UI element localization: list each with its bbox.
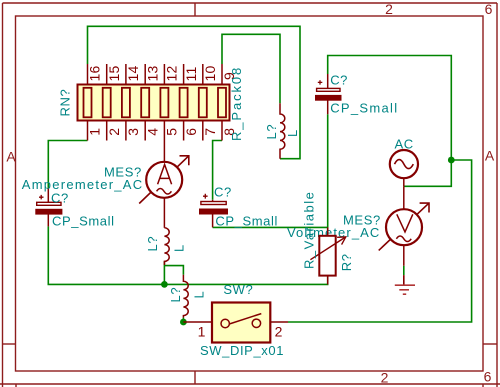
junction D1	[448, 157, 455, 164]
svg-text:C?: C?	[214, 185, 232, 200]
voltmeter tilde	[396, 236, 411, 242]
frame column tick top	[194, 3, 196, 16]
svg-text:AC: AC	[395, 136, 414, 151]
capacitor C2 top plate	[201, 202, 226, 205]
svg-text:CP_Small: CP_Small	[330, 101, 398, 116]
svg-text:R?: R?	[339, 253, 354, 271]
svg-text:2: 2	[106, 128, 122, 136]
svg-text:2: 2	[381, 370, 389, 386]
svg-text:2: 2	[385, 1, 393, 17]
wire C2 bottom to R2 top	[213, 227, 328, 234]
AC source body	[390, 150, 418, 178]
voltmeter bottom pin	[403, 245, 405, 266]
capacitor C3 top lead	[327, 74, 329, 88]
wire junction D1 right down to switch pin2	[288, 160, 472, 322]
svg-text:A: A	[6, 149, 16, 165]
svg-text:3: 3	[125, 128, 141, 136]
svg-text:5: 5	[164, 128, 180, 136]
svg-text:1: 1	[198, 324, 206, 340]
svg-text:L?: L?	[168, 287, 183, 303]
frame tick bottom-left stub	[15, 384, 17, 387]
capacitor C1 top lead	[47, 189, 49, 203]
ammeter top pin	[163, 141, 165, 162]
svg-text:CP_Small: CP_Small	[52, 213, 115, 228]
svg-text:L: L	[285, 129, 300, 137]
resistor elements inside pack	[84, 88, 227, 118]
AC source sine	[395, 160, 414, 169]
voltmeter top pin	[403, 186, 405, 209]
inductor L2	[183, 275, 188, 318]
frame tick bottom-right stub	[482, 384, 484, 387]
pin numbers 1-8 bottom	[87, 128, 238, 136]
wire C3 top to junction D1	[328, 56, 452, 161]
capacitor C2 bottom lead	[212, 214, 214, 227]
ammeter MES? needle arrow	[139, 156, 189, 204]
switch pin 2	[270, 321, 288, 323]
svg-text:L?: L?	[264, 124, 279, 140]
svg-text:Amperemeter_AC: Amperemeter_AC	[22, 177, 144, 192]
svg-text:2: 2	[275, 324, 283, 340]
resistor pack RN? R_Pack08 body	[78, 85, 230, 121]
capacitor C3 top plate	[317, 88, 340, 91]
svg-text:A: A	[485, 148, 495, 164]
capacitor C1 bottom lead	[47, 214, 49, 226]
svg-text:12: 12	[164, 66, 180, 82]
svg-text:4: 4	[144, 128, 160, 136]
switch contacts	[221, 314, 261, 328]
capacitor C1 top plate	[37, 202, 61, 205]
capacitor C2 bottom plate	[200, 209, 228, 214]
capacitor C1 bottom plate	[36, 209, 62, 214]
voltmeter letter V	[397, 214, 413, 232]
wire pin16 to L3 bottom	[88, 26, 301, 158]
svg-text:L: L	[192, 291, 207, 299]
svg-text:C?: C?	[51, 190, 69, 205]
switch SW? body	[212, 303, 270, 343]
svg-text:10: 10	[202, 66, 218, 82]
capacitor C2 plus mark	[203, 194, 208, 199]
frame column tick bottom	[194, 371, 196, 384]
capacitor C2 top lead	[212, 200, 214, 202]
svg-text:7: 7	[202, 128, 218, 136]
svg-text:R_Pack08: R_Pack08	[229, 66, 244, 141]
ground symbol	[395, 275, 415, 294]
R? arrow	[310, 237, 345, 260]
svg-text:6: 6	[183, 128, 199, 136]
svg-text:RN?: RN?	[58, 89, 73, 117]
svg-text:6: 6	[484, 369, 492, 385]
frame row tick right	[483, 343, 497, 345]
capacitor C3 bottom lead	[327, 100, 329, 114]
svg-text:14: 14	[125, 66, 141, 82]
svg-text:15: 15	[106, 66, 122, 82]
R? bottom pin	[327, 276, 329, 285]
wire L1 bottom jog to L2 top	[164, 266, 183, 275]
capacitor C3 plus mark	[318, 80, 323, 84]
ammeter letter A	[158, 165, 172, 185]
wire pin1 to C1 top	[48, 141, 87, 189]
wire C1 bottom to bus node	[48, 226, 164, 284]
ammeter MES? Amperemeter_AC body	[146, 162, 182, 198]
svg-text:SW?: SW?	[223, 282, 253, 297]
ammeter tilde	[157, 189, 172, 195]
svg-text:R_Variable: R_Variable	[302, 191, 317, 269]
voltmeter needle arrow	[379, 203, 429, 250]
capacitor C3 bottom plate	[316, 95, 342, 100]
ammeter bottom pin	[163, 198, 165, 228]
wire junction D1 down to AC bottom	[404, 160, 452, 186]
AC source bottom pin	[403, 178, 405, 186]
svg-text:11: 11	[183, 67, 199, 82]
wire bus node to R2 bottom	[164, 277, 327, 285]
frame row tick left	[3, 343, 16, 345]
svg-text:16: 16	[87, 66, 103, 82]
junction D3 switch	[180, 319, 187, 326]
wire C3 bottom to node	[327, 114, 329, 227]
svg-text:6: 6	[485, 1, 493, 17]
junction D2 bus	[161, 281, 168, 288]
svg-text:SW_DIP_x01: SW_DIP_x01	[200, 343, 284, 358]
resistor pack pins bottom	[88, 121, 223, 141]
variable resistor R? body	[319, 236, 335, 276]
svg-text:CP_Small: CP_Small	[215, 214, 278, 229]
switch pin 1	[183, 321, 212, 323]
wire L2 bottom to switch junction	[182, 318, 184, 322]
inductor L1	[164, 228, 169, 265]
wire L1 bottom to bus junction	[163, 261, 165, 284]
inductor L3	[280, 103, 285, 158]
svg-text:13: 13	[144, 66, 160, 82]
voltmeter MES? Voltmeter_AC body	[386, 209, 422, 245]
capacitor C1 plus mark	[39, 195, 44, 200]
wire voltmeter bottom to ground	[403, 266, 405, 275]
R? top pin	[327, 227, 329, 235]
svg-text:C?: C?	[330, 72, 348, 87]
resistor pack pins top	[88, 64, 223, 85]
wire pin8 to C2 top	[213, 141, 222, 200]
svg-text:L?: L?	[145, 236, 160, 252]
svg-text:L: L	[172, 244, 187, 252]
wire pin9 to L3 top	[222, 34, 280, 103]
svg-text:1: 1	[87, 128, 103, 136]
pin numbers 16-9 top	[87, 66, 238, 82]
